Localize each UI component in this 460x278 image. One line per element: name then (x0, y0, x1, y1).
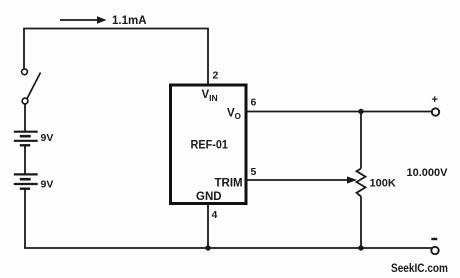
potentiometer R1 100K (357, 169, 366, 197)
terminal - (431, 247, 438, 254)
wire battery2 to bottom rail (24, 189, 26, 248)
svg-text:5: 5 (251, 166, 257, 178)
svg-text:10.000V: 10.000V (407, 167, 449, 179)
wire pot top (360, 112, 362, 169)
wire battery1 to battery2 (24, 145, 26, 174)
wire bottom rail (24, 247, 432, 249)
wire pin 6 output (246, 111, 432, 113)
junction pin4/bottom rail (205, 245, 210, 250)
svg-text:9V: 9V (41, 179, 54, 191)
svg-text:TRIM: TRIM (215, 177, 243, 189)
label - (431, 238, 437, 240)
terminal + (432, 108, 439, 115)
svg-text:GND: GND (196, 191, 222, 203)
wire pot bottom (360, 197, 362, 249)
switch S1 (22, 69, 41, 104)
battery B1 9V (14, 132, 38, 146)
svg-text:SeekIC.com: SeekIC.com (391, 263, 448, 275)
wire switch to battery (24, 104, 26, 132)
junction pot/bottom rail (358, 245, 363, 250)
svg-text:1.1mA: 1.1mA (112, 15, 147, 27)
svg-text:REF-01: REF-01 (191, 137, 229, 151)
junction output/pot (358, 109, 363, 114)
svg-text:VIN: VIN (202, 89, 218, 103)
svg-text:VO: VO (227, 108, 241, 122)
svg-text:2: 2 (213, 70, 219, 82)
svg-text:+: + (432, 94, 438, 106)
wiper arrow (347, 176, 357, 183)
svg-text:4: 4 (212, 209, 218, 221)
wire pin 4 to bottom rail (207, 204, 209, 248)
svg-text:9V: 9V (41, 132, 54, 144)
op-amp U1 REF-01 box (171, 85, 247, 204)
current arrow (60, 16, 107, 24)
svg-text:6: 6 (251, 97, 257, 109)
battery B2 9V (14, 174, 38, 188)
svg-text:100K: 100K (370, 178, 396, 190)
wire top rail (24, 29, 208, 85)
wire pin 5 to wiper (246, 179, 347, 181)
